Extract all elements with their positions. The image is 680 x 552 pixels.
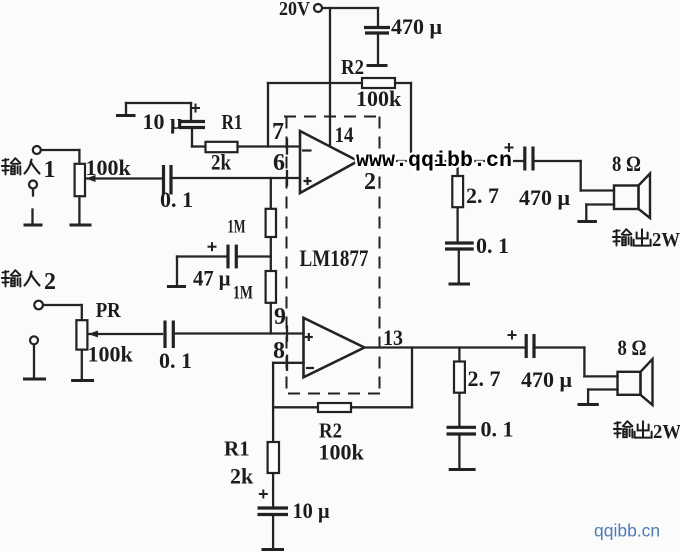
- svg-text:100k: 100k: [319, 440, 365, 465]
- svg-text:PR: PR: [96, 298, 122, 322]
- svg-text:1M: 1M: [228, 217, 246, 238]
- svg-text:2W: 2W: [653, 421, 680, 443]
- svg-text:2W: 2W: [652, 229, 680, 251]
- svg-text:470 μ: 470 μ: [519, 185, 571, 210]
- svg-text:R2: R2: [341, 55, 364, 79]
- svg-text:qqibb.cn: qqibb.cn: [594, 521, 660, 541]
- svg-text:47 μ: 47 μ: [193, 266, 231, 291]
- svg-text:7: 7: [272, 119, 284, 145]
- svg-text:8: 8: [273, 338, 285, 364]
- svg-text:14: 14: [335, 122, 354, 147]
- svg-text:10 μ: 10 μ: [143, 109, 184, 134]
- svg-text:0. 1: 0. 1: [481, 417, 514, 442]
- svg-text:470 μ: 470 μ: [521, 367, 573, 392]
- svg-text:0. 1: 0. 1: [476, 233, 509, 258]
- svg-text:2k: 2k: [230, 464, 254, 489]
- svg-text:2k: 2k: [211, 150, 232, 175]
- svg-text:1M: 1M: [233, 283, 253, 304]
- svg-text:8 Ω: 8 Ω: [618, 335, 647, 360]
- svg-text:13: 13: [383, 325, 403, 350]
- svg-text:1: 1: [44, 157, 56, 183]
- svg-text:10 μ: 10 μ: [293, 498, 330, 523]
- svg-text:0. 1: 0. 1: [160, 187, 193, 212]
- svg-text:R1: R1: [224, 437, 250, 461]
- svg-text:6: 6: [273, 150, 285, 176]
- svg-text:100k: 100k: [356, 86, 402, 111]
- svg-text:9: 9: [274, 304, 286, 330]
- svg-text:0. 1: 0. 1: [159, 348, 192, 373]
- svg-text:470 μ: 470 μ: [391, 14, 443, 39]
- svg-text:100k: 100k: [88, 342, 134, 367]
- svg-text:20V: 20V: [279, 0, 310, 20]
- svg-text:LM1877: LM1877: [300, 246, 369, 271]
- svg-text:2: 2: [44, 269, 56, 295]
- svg-text:2. 7: 2. 7: [466, 183, 499, 208]
- svg-text:8 Ω: 8 Ω: [612, 151, 641, 176]
- svg-text:2. 7: 2. 7: [468, 366, 501, 391]
- svg-text:R1: R1: [222, 110, 243, 134]
- svg-text:www.qqibb.cn: www.qqibb.cn: [356, 150, 512, 173]
- svg-text:100k: 100k: [86, 155, 132, 180]
